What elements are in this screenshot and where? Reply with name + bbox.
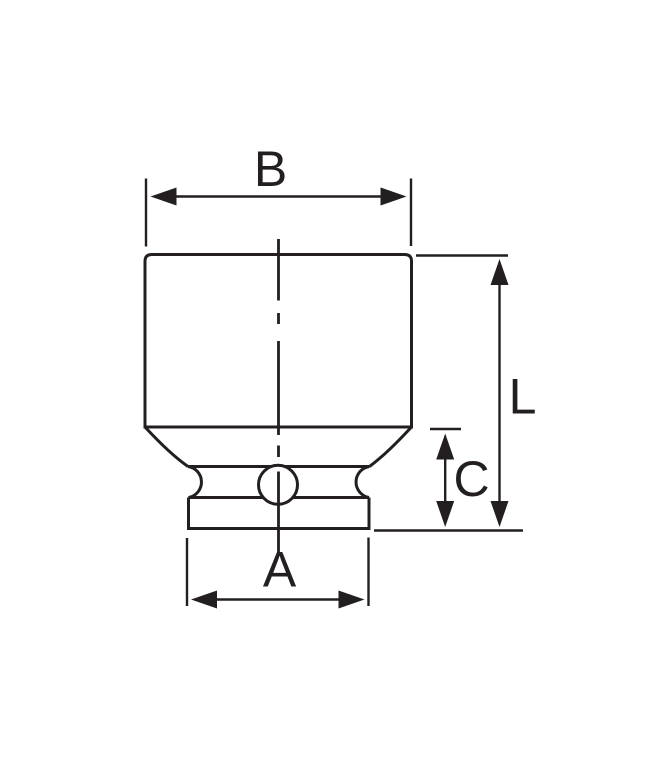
dimension C: top arrowhead	[436, 434, 454, 460]
svg-text:A: A	[263, 541, 297, 597]
centerline (dash-dot)	[277, 239, 280, 553]
groove arc right	[356, 467, 369, 498]
dimension L: top arrowhead	[491, 259, 509, 285]
dimension L: arrow line	[498, 266, 500, 520]
dimension B: right arrowhead	[381, 188, 407, 206]
dimension C: arrow line	[444, 440, 446, 520]
dimension A: left extension line	[186, 538, 188, 606]
square-drive base	[189, 498, 370, 529]
taper right	[370, 427, 412, 467]
dimension A: arrow line	[200, 598, 356, 600]
dimension C: top tick	[430, 428, 461, 430]
dimension L: top extension line	[416, 254, 508, 256]
taper left	[145, 427, 188, 467]
dimension A: left arrowhead	[191, 591, 217, 609]
dimension C: bottom arrowhead	[436, 501, 454, 527]
dimension B: arrow line	[160, 195, 398, 197]
dimension L: bottom arrowhead	[491, 501, 509, 527]
svg-text:L: L	[509, 369, 537, 425]
dimension B: left arrowhead	[151, 188, 177, 206]
dimension A: right arrowhead	[339, 591, 365, 609]
dimension A: right extension line	[367, 538, 369, 607]
svg-text:C: C	[453, 451, 489, 507]
groove top line	[188, 465, 370, 468]
pin hole circle	[259, 465, 298, 504]
dimension B: left tick	[145, 179, 147, 247]
groove arc left	[188, 467, 201, 498]
dimension B: right tick	[410, 179, 412, 247]
socket body outline	[145, 255, 412, 428]
svg-text:B: B	[254, 141, 287, 197]
dimension L: bottom extension line (shared with C)	[374, 529, 523, 531]
groove bottom line	[189, 496, 370, 499]
